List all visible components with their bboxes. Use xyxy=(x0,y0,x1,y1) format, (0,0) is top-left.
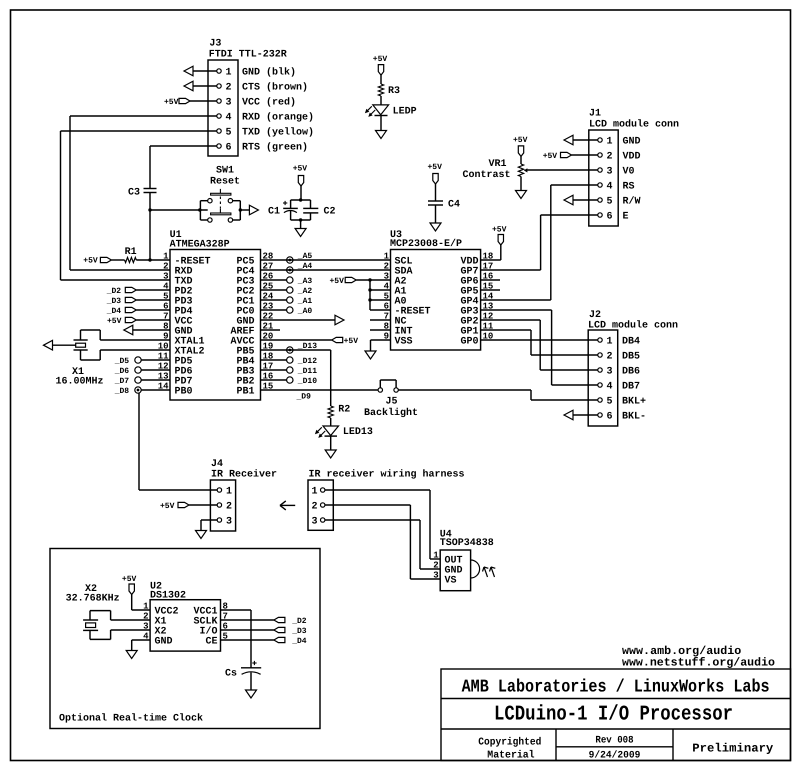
svg-text:GND (blk): GND (blk) xyxy=(242,67,296,79)
svg-text:V0: V0 xyxy=(623,167,635,178)
node _D5 U1 pin11 xyxy=(114,357,142,366)
svg-text:_D6: _D6 xyxy=(114,367,130,376)
svg-text:_A1: _A1 xyxy=(297,297,313,306)
svg-text:3: 3 xyxy=(226,517,232,528)
svg-text:TSOP34838: TSOP34838 xyxy=(440,538,494,549)
svg-text:RTS (green): RTS (green) xyxy=(242,142,308,154)
svg-text:J2: J2 xyxy=(589,310,601,321)
wire R1 to U1 pin1 xyxy=(136,259,170,261)
wire U1 pin7 xyxy=(136,319,170,321)
IC U3 MCP23008-E/P xyxy=(384,230,494,350)
svg-text:TXD (yellow): TXD (yellow) xyxy=(242,127,314,139)
ground U1 pin22 xyxy=(335,315,344,325)
node _D10 xyxy=(287,377,318,386)
wire U1 pin23 xyxy=(261,309,287,311)
svg-text:J1: J1 xyxy=(589,109,601,120)
svg-text:_D9: _D9 xyxy=(296,392,312,401)
svg-text:+5V: +5V xyxy=(164,98,179,107)
wire SW1 to ground xyxy=(240,209,249,211)
wire net _D8 to J4 pin1 xyxy=(139,393,217,490)
svg-text:Backlight: Backlight xyxy=(364,407,418,419)
svg-text:LED13: LED13 xyxy=(343,427,373,438)
ground C4 xyxy=(430,223,441,231)
wire +5V to U2 pin1 xyxy=(132,595,150,611)
svg-text:_D11: _D11 xyxy=(297,367,317,376)
wire J3 pin3 VCC xyxy=(190,100,217,102)
power +5V J3 pin3 xyxy=(164,98,190,107)
svg-text:_D2: _D2 xyxy=(106,287,122,296)
svg-text:C4: C4 xyxy=(448,199,460,210)
svg-text:SW1: SW1 xyxy=(216,166,234,177)
svg-text:3: 3 xyxy=(607,167,613,178)
capacitor Cs xyxy=(225,661,261,680)
svg-text:1: 1 xyxy=(226,68,232,79)
svg-text:BKL-: BKL- xyxy=(622,412,646,423)
junction U3 A1 xyxy=(368,288,371,291)
wire J1 pin2 VDD xyxy=(572,154,598,156)
svg-text:LCD module conn: LCD module conn xyxy=(588,320,678,332)
ground J1 pin5 xyxy=(564,195,573,205)
wire U1 pin14 xyxy=(141,389,170,391)
node _D11 xyxy=(287,367,318,376)
LED LEDP xyxy=(365,105,417,118)
svg-text:LCDuino-1 I/O Processor: LCDuino-1 I/O Processor xyxy=(494,704,733,727)
node _A0 xyxy=(287,307,313,316)
svg-text:J4: J4 xyxy=(211,459,223,470)
svg-text:3: 3 xyxy=(226,98,232,109)
power +5V U3 VDD xyxy=(492,226,507,246)
junction C1/C2 top xyxy=(299,198,302,201)
svg-text:1: 1 xyxy=(433,551,439,561)
wire net _A4/SDA U1 pin27 to U3 pin2 xyxy=(261,269,391,271)
svg-text:BKL+: BKL+ xyxy=(622,397,646,408)
wire U2 pin2 to X2 xyxy=(90,611,150,620)
ground SW1 xyxy=(249,205,258,215)
wire U2 pin3 to X2 xyxy=(90,630,150,639)
svg-text:3: 3 xyxy=(433,571,438,581)
power +5V U1 AVCC xyxy=(332,337,359,346)
svg-text:1: 1 xyxy=(226,487,232,498)
connector J4 IR Receiver xyxy=(210,459,277,531)
svg-text:R/W: R/W xyxy=(623,196,641,208)
node _D6 U1 pin12 xyxy=(114,367,142,376)
svg-text:GND: GND xyxy=(623,137,641,148)
svg-text:_D3: _D3 xyxy=(291,627,307,636)
svg-text:VR1: VR1 xyxy=(489,159,507,170)
wire U1 pin26 xyxy=(261,279,287,281)
svg-text:17: 17 xyxy=(483,262,494,272)
wire LED13 to ground xyxy=(330,436,332,449)
net label _D2 flag U1 pin4 xyxy=(106,287,137,296)
wire U3 VSS to ground xyxy=(371,340,391,351)
wire U3 NC stub xyxy=(370,319,391,321)
crystal X2 32.768KHz xyxy=(66,584,120,630)
wire U2 pin4 to ground xyxy=(132,640,150,650)
svg-text:+5V: +5V xyxy=(492,226,507,235)
wire net TXD J3 pin5 to U1 pin3 xyxy=(61,131,217,280)
svg-text:Preliminary: Preliminary xyxy=(692,742,773,756)
wire net _D9 U1 pin15 to J5 xyxy=(261,389,379,391)
node _A5 xyxy=(287,252,313,263)
net label _D3 flag U2 I/O xyxy=(221,627,307,636)
wire R3 to LEDP xyxy=(380,96,382,105)
RTC section box Optional Real-time Clock xyxy=(50,549,320,729)
connector J2 LCD module conn xyxy=(588,310,678,426)
ground J4 pin3 xyxy=(196,531,207,539)
wire J3 pin1 to ground xyxy=(192,70,217,72)
power +5V VR1 xyxy=(513,136,528,156)
LED LED13 xyxy=(315,426,373,438)
svg-text:Cs: Cs xyxy=(225,669,237,680)
svg-text:4: 4 xyxy=(607,382,613,393)
svg-text:_A3: _A3 xyxy=(297,277,313,286)
node _D8 U1 pin14 xyxy=(114,387,142,396)
svg-text:_D7: _D7 xyxy=(114,377,130,386)
power +5V R1 xyxy=(83,257,111,266)
crystal X1 16.00MHz xyxy=(56,340,104,388)
wire U1 pin12 xyxy=(141,369,170,371)
copyrighted material text xyxy=(478,737,541,762)
svg-text:2: 2 xyxy=(163,262,168,272)
svg-text:Contrast: Contrast xyxy=(463,170,511,181)
svg-text:+5V: +5V xyxy=(122,575,137,584)
svg-text:1: 1 xyxy=(607,337,613,348)
IC U1 ATMEGA328P xyxy=(158,230,274,400)
svg-text:16.00MHz: 16.00MHz xyxy=(56,377,104,388)
wire net DB7 U3 GP3 to J2 pin4 xyxy=(481,310,598,385)
wire U1 pin8 xyxy=(133,329,170,331)
svg-text:_D13: _D13 xyxy=(297,342,317,351)
capacitor C4 xyxy=(428,199,460,210)
svg-text:www.netstuff.org/audio: www.netstuff.org/audio xyxy=(622,657,775,670)
svg-text:RXD (orange): RXD (orange) xyxy=(242,112,314,124)
wire +5V to R1 xyxy=(111,259,124,261)
wire VR1 to ground xyxy=(520,177,522,191)
wire U2 VCC1 pin8 to Cs xyxy=(221,610,252,668)
resistor R2 xyxy=(328,405,350,419)
wire U3 INT stub xyxy=(370,329,391,331)
ground C1/C2 xyxy=(295,229,306,237)
wire U1 pin20 AVCC xyxy=(261,339,332,341)
power +5V U1 VCC pin7 xyxy=(107,317,136,326)
switch SW1 Reset xyxy=(198,166,242,223)
wire net DB6 U3 GP2 to J2 pin3 xyxy=(481,320,598,370)
svg-text:1: 1 xyxy=(384,252,390,262)
svg-text:Rev 008: Rev 008 xyxy=(595,736,633,747)
wire +5V to VR1 xyxy=(520,156,522,164)
wire net RXD J3 pin4 to U1 pin2 xyxy=(70,116,217,270)
svg-text:DB6: DB6 xyxy=(622,367,640,378)
svg-text:_D2: _D2 xyxy=(291,617,307,626)
wire harness pin1 to U4 OUT xyxy=(325,490,440,559)
wire net DB5 U3 GP1 to J2 pin2 xyxy=(481,330,598,355)
wire J5 to J2 BKL+ xyxy=(398,390,598,400)
wire U1 pin18 xyxy=(261,359,287,361)
node _D12 xyxy=(287,357,318,366)
wire VR1 wiper to J1 pin3 xyxy=(527,169,598,171)
svg-text:C3: C3 xyxy=(128,188,140,199)
svg-text:4: 4 xyxy=(226,113,232,124)
svg-text:_D8: _D8 xyxy=(114,387,130,396)
svg-text:4: 4 xyxy=(607,182,613,193)
ground VR1 xyxy=(516,191,527,199)
wire R2 to LED13 xyxy=(330,418,332,426)
svg-text:2: 2 xyxy=(384,262,389,272)
potentiometer VR1 Contrast xyxy=(463,159,528,181)
svg-text:2: 2 xyxy=(607,352,613,363)
wire J4 pin2 xyxy=(189,504,217,506)
capacitor C2 xyxy=(303,207,335,218)
power +5V C1/C2 xyxy=(293,165,308,187)
svg-text:R2: R2 xyxy=(338,405,350,416)
svg-text:2: 2 xyxy=(607,152,613,163)
wire U1 pin22 GND xyxy=(261,319,336,321)
junction RESET/SW1 xyxy=(148,208,151,211)
net label _D4 flag U1 pin6 xyxy=(106,307,137,316)
node _D7 U1 pin13 xyxy=(114,377,142,386)
svg-text:5: 5 xyxy=(226,128,232,139)
capacitor C3 xyxy=(128,188,157,199)
svg-text:MCP23008-E/P: MCP23008-E/P xyxy=(390,238,462,250)
svg-text:VCC (red): VCC (red) xyxy=(242,97,296,109)
wire U1 pin4 xyxy=(136,289,170,291)
wire C1/C2 bottom rail xyxy=(291,211,311,230)
svg-text:6: 6 xyxy=(226,143,232,154)
svg-text:_D4: _D4 xyxy=(106,307,122,316)
junction C1/C2 bottom xyxy=(299,218,302,221)
svg-text:R1: R1 xyxy=(125,247,137,258)
svg-text:_A4: _A4 xyxy=(297,262,313,271)
svg-text:CE: CE xyxy=(205,637,217,648)
net label _D4 flag U2 CE xyxy=(221,637,307,646)
svg-text:+5V: +5V xyxy=(83,257,98,266)
wire XTAL2 U1 pin10 to X1 xyxy=(81,350,171,360)
wire U3 VDD pin18 to +5V xyxy=(481,245,501,260)
svg-text:6: 6 xyxy=(607,412,613,423)
svg-text:_D5: _D5 xyxy=(114,357,130,366)
junction U3 A2 xyxy=(368,278,371,281)
IR rays arrows U4 xyxy=(483,567,496,577)
net label _D2 flag U2 SCLK xyxy=(221,617,307,626)
junction RESET/R1 xyxy=(148,258,151,261)
svg-text:2: 2 xyxy=(226,502,232,513)
wire J4 pin3 to ground xyxy=(201,520,217,530)
svg-text:_D12: _D12 xyxy=(297,357,317,366)
svg-text:5: 5 xyxy=(607,197,613,208)
wire +5V to C1/C2 rails xyxy=(291,186,311,209)
svg-text:6: 6 xyxy=(607,212,613,223)
svg-text:1: 1 xyxy=(607,137,613,148)
node _A1 xyxy=(287,297,313,306)
svg-text:VS: VS xyxy=(445,576,457,587)
svg-text:Material: Material xyxy=(487,750,534,762)
ground U1 pin8 xyxy=(124,325,133,335)
svg-text:3: 3 xyxy=(163,272,168,282)
resistor R1 xyxy=(125,247,137,263)
connector J3 FTDI TTL-232R xyxy=(208,39,314,156)
wire +5V to R3 xyxy=(380,75,382,84)
svg-text:C2: C2 xyxy=(324,207,336,218)
svg-text:2: 2 xyxy=(226,83,232,94)
IC U2 DS1302 xyxy=(143,581,228,651)
url text xyxy=(622,645,775,670)
power +5V C4 xyxy=(428,163,443,184)
wire U1 pin6 xyxy=(136,309,170,311)
wire U1 pin24 xyxy=(261,299,287,301)
wire harness pin2 to U4 VS xyxy=(325,505,440,579)
wire U1 pin17 xyxy=(261,369,287,371)
ground J3 pin1 xyxy=(184,66,193,76)
node _A4 xyxy=(287,262,313,273)
ground LED13 xyxy=(325,450,336,458)
node _A3 xyxy=(287,277,313,286)
svg-text:_D3: _D3 xyxy=(106,297,122,306)
svg-text:3: 3 xyxy=(607,367,613,378)
wire +5V to C4 xyxy=(435,184,437,201)
wire net RTS J3 pin6 to C3 xyxy=(150,146,217,189)
wire RESET to SW1 xyxy=(150,209,208,211)
wire U1 pin13 xyxy=(141,379,170,381)
rev text xyxy=(589,736,641,762)
svg-text:14: 14 xyxy=(483,292,494,302)
svg-text:J5: J5 xyxy=(386,397,398,408)
svg-text:C1: C1 xyxy=(268,207,280,218)
wire +5V to U3 A2/A1/A0/-RESET xyxy=(356,280,390,310)
svg-text:RS: RS xyxy=(623,182,635,193)
svg-text:LCD module conn: LCD module conn xyxy=(589,119,679,131)
wire harness pin3 to U4 GND xyxy=(325,520,440,569)
svg-text:LEDP: LEDP xyxy=(393,107,417,118)
svg-text:IR receiver wiring harness: IR receiver wiring harness xyxy=(309,469,465,481)
svg-text:3: 3 xyxy=(312,517,318,528)
ground X1 xyxy=(44,340,53,350)
wire RESET net C3 to R1 xyxy=(149,193,151,261)
svg-text:FTDI TTL-232R: FTDI TTL-232R xyxy=(209,50,287,61)
svg-text:9/24/2009: 9/24/2009 xyxy=(589,750,641,762)
svg-text:GP0: GP0 xyxy=(460,337,478,348)
ground U2 pin4 xyxy=(126,651,137,659)
svg-text:2: 2 xyxy=(433,561,438,571)
ground Cs xyxy=(246,690,257,698)
svg-text:_A2: _A2 xyxy=(297,287,313,296)
net label _D3 flag U1 pin5 xyxy=(106,297,137,306)
svg-text:E: E xyxy=(623,212,629,223)
wire J1 pin5 to ground xyxy=(573,199,598,201)
svg-text:VDD: VDD xyxy=(623,152,641,163)
wire net _A5/SCL U1 pin28 to U3 pin1 xyxy=(261,259,391,261)
wire X1 case to ground xyxy=(53,344,76,346)
connector J1 LCD module conn xyxy=(589,109,679,227)
wire net DB4 U3 GP0 to J2 pin1 xyxy=(481,339,598,341)
ground J1 pin1 xyxy=(564,135,573,145)
connector IR receiver wiring harness xyxy=(308,469,465,531)
svg-text:Copyrighted: Copyrighted xyxy=(478,737,541,749)
power +5V J4 pin2 xyxy=(160,502,189,511)
wire J3 pin2 to ground xyxy=(192,85,217,87)
svg-text:ATMEGA328P: ATMEGA328P xyxy=(170,239,230,250)
wire net E J1 pin6 to U3 GP7 xyxy=(481,215,598,270)
title block xyxy=(441,669,791,761)
wire Cs to ground xyxy=(250,673,252,690)
svg-text:_D4: _D4 xyxy=(291,637,307,646)
ground U3 VSS xyxy=(365,351,376,359)
ground J2 pin6 xyxy=(564,410,573,420)
svg-text:5: 5 xyxy=(607,397,613,408)
svg-text:DB5: DB5 xyxy=(622,352,640,363)
svg-text:Optional Real-time Clock: Optional Real-time Clock xyxy=(59,712,203,724)
svg-text:CTS (brown): CTS (brown) xyxy=(242,82,308,94)
svg-text:DB4: DB4 xyxy=(622,337,640,348)
svg-text:DB7: DB7 xyxy=(622,382,640,393)
wire U1 pin11 xyxy=(141,359,170,361)
svg-text:+5V: +5V xyxy=(543,152,558,161)
svg-text:GND: GND xyxy=(155,637,173,648)
svg-text:2: 2 xyxy=(312,502,318,513)
svg-text:+5V: +5V xyxy=(330,277,345,286)
svg-text:Reset: Reset xyxy=(210,177,240,188)
ground J3 pin2 xyxy=(184,81,193,91)
wire U1 pin25 xyxy=(261,289,287,291)
svg-text:_A0: _A0 xyxy=(297,307,313,316)
wire net _D13 U1 pin19 to R2 xyxy=(261,350,331,406)
jumper J5 Backlight xyxy=(364,380,418,419)
svg-text:+5V: +5V xyxy=(373,55,388,64)
wire U3 GP5 stub xyxy=(481,289,500,291)
power +5V U3 address pins xyxy=(330,277,357,286)
svg-text:32.768KHz: 32.768KHz xyxy=(66,594,120,605)
svg-text:DS1302: DS1302 xyxy=(150,591,186,602)
power +5V J1 pin2 xyxy=(543,152,572,161)
svg-text:IR Receiver: IR Receiver xyxy=(211,469,277,481)
svg-text:VSS: VSS xyxy=(395,337,413,348)
svg-text:+5V: +5V xyxy=(160,502,175,511)
wire LEDP to ground xyxy=(380,116,382,131)
wire U1 pin5 xyxy=(136,299,170,301)
junction U3 A0 xyxy=(368,298,371,301)
wire net RS J1 pin4 to U3 GP4 xyxy=(481,185,598,300)
svg-text:+5V: +5V xyxy=(344,337,359,346)
svg-text:R3: R3 xyxy=(388,86,400,97)
svg-text:PB1: PB1 xyxy=(236,387,254,398)
svg-text:1: 1 xyxy=(312,487,318,498)
svg-text:PB0: PB0 xyxy=(175,387,193,398)
power +5V R3 xyxy=(373,55,388,75)
svg-text:_D10: _D10 xyxy=(297,377,317,386)
capacitor C1 xyxy=(268,201,298,218)
svg-text:AMB Laboratories / LinuxWorks: AMB Laboratories / LinuxWorks Labs xyxy=(462,678,770,698)
power +5V U2 VCC2 xyxy=(122,575,137,595)
svg-text:J3: J3 xyxy=(209,39,221,50)
ground LEDP xyxy=(376,131,387,139)
svg-text:+5V: +5V xyxy=(107,317,122,326)
wire U1 pin16 xyxy=(261,379,287,381)
resistor R3 xyxy=(378,84,400,97)
svg-text:+5V: +5V xyxy=(293,165,308,174)
wire XTAL1 U1 pin9 to X1 xyxy=(81,330,171,340)
wire J2 pin6 to ground xyxy=(573,414,598,416)
wire J1 pin1 to ground xyxy=(573,139,598,141)
wire U1 pin21 AREF stub xyxy=(261,329,281,331)
svg-text:_A5: _A5 xyxy=(297,252,313,261)
svg-text:+5V: +5V xyxy=(513,136,528,145)
IC U4 TSOP34838 xyxy=(433,529,493,590)
wire C4 to ground xyxy=(435,205,437,223)
node _D13 xyxy=(287,342,318,353)
wire U3 GP6 stub xyxy=(481,279,500,281)
svg-text:+5V: +5V xyxy=(428,163,443,172)
arrow annotation between J4 and harness xyxy=(280,501,295,510)
node _A2 xyxy=(287,287,313,296)
